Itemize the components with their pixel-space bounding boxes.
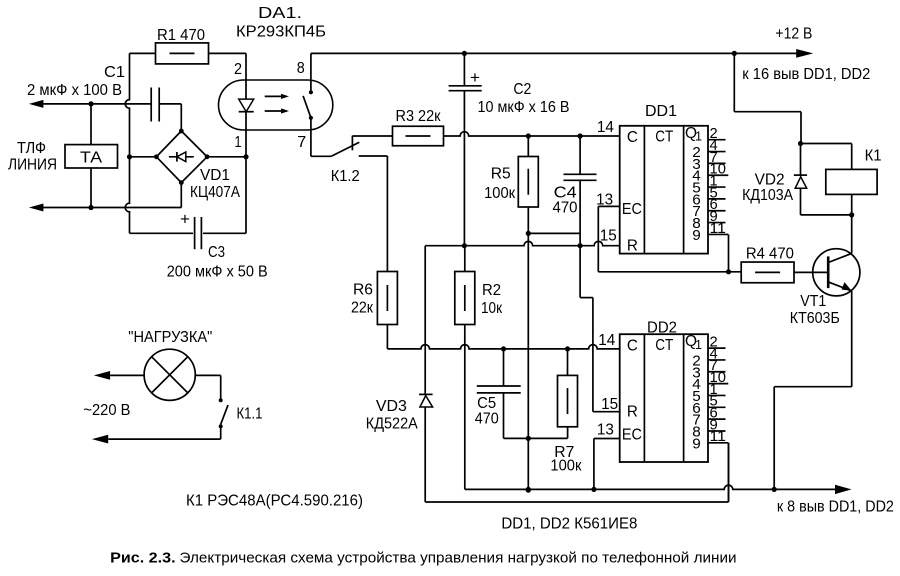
- svg-text:R5: R5: [491, 165, 511, 182]
- svg-text:КР293КП4Б: КР293КП4Б: [236, 24, 326, 41]
- svg-text:ТЛФ: ТЛФ: [17, 140, 46, 157]
- svg-text:КД103А: КД103А: [742, 187, 793, 204]
- svg-text:14: 14: [597, 119, 614, 136]
- svg-text:R6: R6: [353, 282, 373, 299]
- svg-text:CT: CT: [655, 129, 673, 146]
- svg-text:"НАГРУЗКА": "НАГРУЗКА": [128, 329, 212, 346]
- svg-text:DA1.: DA1.: [258, 5, 302, 22]
- svg-text:14: 14: [598, 332, 615, 349]
- svg-text:15: 15: [601, 396, 618, 413]
- svg-text:К1 РЭС48А(РС4.590.216): К1 РЭС48А(РС4.590.216): [186, 493, 363, 510]
- svg-text:470: 470: [475, 411, 499, 428]
- svg-text:+: +: [470, 68, 480, 87]
- svg-text:ТА: ТА: [80, 150, 102, 167]
- svg-text:C: C: [627, 129, 638, 146]
- svg-text:EC: EC: [622, 201, 642, 218]
- svg-text:C3: C3: [208, 244, 225, 261]
- svg-text:~220 В: ~220 В: [83, 402, 130, 419]
- svg-text:100к: 100к: [484, 185, 516, 202]
- svg-text:1: 1: [695, 337, 702, 352]
- svg-text:VD2: VD2: [755, 172, 785, 189]
- svg-text:200 мкФ х 50 В: 200 мкФ х 50 В: [167, 264, 268, 281]
- svg-text:Рис. 2.3.: Рис. 2.3.: [110, 550, 176, 567]
- svg-text:2 мкФ х 100 В: 2 мкФ х 100 В: [27, 82, 122, 99]
- svg-text:13: 13: [597, 421, 614, 438]
- svg-text:EC: EC: [622, 426, 642, 443]
- svg-text:10к: 10к: [481, 300, 503, 317]
- svg-text:C2: C2: [513, 81, 531, 98]
- svg-text:к 16 выв DD1, DD2: к 16 выв DD1, DD2: [742, 66, 870, 83]
- svg-text:10 мкФ х 16 В: 10 мкФ х 16 В: [478, 99, 570, 116]
- svg-text:+: +: [180, 210, 190, 229]
- svg-text:R1 470: R1 470: [157, 27, 205, 44]
- svg-text:9: 9: [692, 227, 701, 244]
- svg-text:2: 2: [234, 61, 242, 78]
- svg-text:R: R: [627, 237, 638, 254]
- svg-text:DD1: DD1: [645, 103, 677, 120]
- svg-text:КД522А: КД522А: [366, 415, 418, 432]
- svg-text:11: 11: [710, 220, 726, 237]
- svg-text:22к: 22к: [351, 300, 374, 317]
- svg-text:100к: 100к: [550, 458, 582, 475]
- svg-text:Электрическая схема устройства: Электрическая схема устройства управлени…: [180, 550, 737, 567]
- svg-text:R: R: [627, 404, 638, 421]
- svg-text:КТ603Б: КТ603Б: [790, 310, 840, 327]
- svg-text:C: C: [627, 337, 638, 354]
- svg-text:к 8 выв DD1, DD2: к 8 выв DD1, DD2: [777, 499, 894, 516]
- svg-text:VD3: VD3: [376, 398, 407, 415]
- svg-text:470: 470: [553, 200, 578, 217]
- svg-text:9: 9: [692, 435, 701, 452]
- svg-text:C1: C1: [104, 64, 125, 81]
- svg-text:11: 11: [710, 428, 726, 445]
- svg-text:R2: R2: [482, 282, 501, 299]
- svg-text:R3 22к: R3 22к: [396, 108, 442, 125]
- svg-text:VD1: VD1: [200, 167, 230, 184]
- svg-text:ЛИНИЯ: ЛИНИЯ: [8, 157, 57, 174]
- svg-text:КЦ407А: КЦ407А: [190, 184, 240, 201]
- svg-text:1: 1: [695, 129, 702, 144]
- svg-text:15: 15: [600, 228, 617, 245]
- svg-text:8: 8: [297, 60, 305, 77]
- svg-text:7: 7: [297, 134, 306, 151]
- svg-text:C5: C5: [477, 395, 496, 412]
- svg-text:VT1: VT1: [800, 293, 826, 310]
- svg-text:К1: К1: [865, 148, 882, 165]
- svg-text:К1.1: К1.1: [237, 405, 263, 422]
- svg-text:1: 1: [235, 134, 242, 151]
- svg-text:R4 470: R4 470: [746, 246, 794, 263]
- svg-text:+12 В: +12 В: [775, 26, 812, 43]
- svg-text:CT: CT: [655, 337, 673, 354]
- svg-text:DD1, DD2 К561ИЕ8: DD1, DD2 К561ИЕ8: [501, 515, 637, 532]
- svg-text:К1.2: К1.2: [331, 168, 360, 185]
